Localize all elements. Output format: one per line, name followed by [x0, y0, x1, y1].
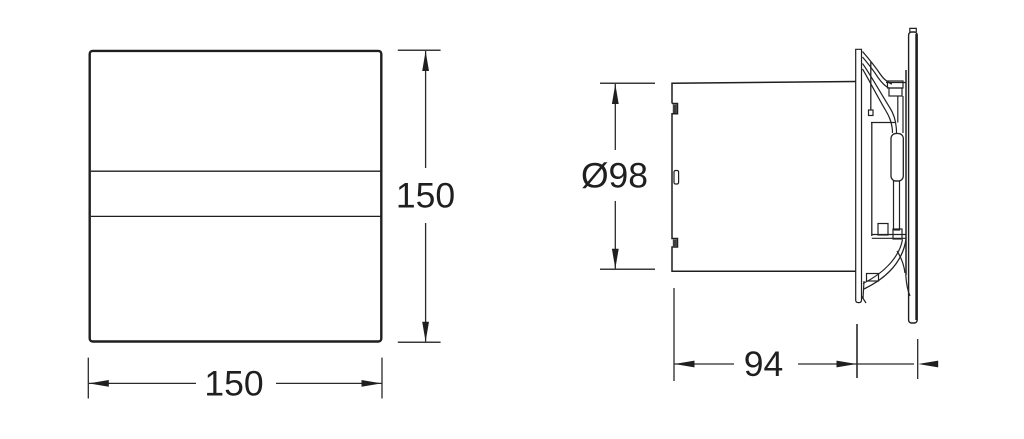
arrow up (150 height): [422, 51, 429, 71]
scroll mid horizontal: [871, 122, 896, 124]
bell to panel diagonal: [906, 275, 910, 296]
arrow down (O98): [612, 249, 619, 269]
front panel square (front view): [90, 51, 382, 342]
glass panel right edge thick: [915, 34, 917, 320]
hub shutter box lower: [889, 88, 902, 96]
motor capsule: [891, 134, 903, 182]
bell right lower curve: [897, 251, 905, 273]
extension line mid (94 dim): [856, 324, 858, 378]
extension line left (94 dim): [673, 288, 675, 381]
dim line width 150 right segment: [276, 382, 382, 384]
body clip tab top: [673, 105, 677, 114]
dim line vertical O98 upper segment: [614, 84, 616, 150]
wall mounting plate: [856, 49, 862, 302]
glass panel body: [909, 32, 918, 323]
housing back vertical line: [905, 70, 907, 275]
scroll diagonal outer: [863, 64, 897, 134]
plate bottom diagonal: [862, 296, 867, 303]
extension tick bottom (height 150 dim): [398, 341, 441, 343]
terminal box right: [893, 229, 902, 239]
bell bottom inner curve: [863, 240, 903, 284]
hub shutter box upper: [888, 81, 904, 88]
base double line lower: [872, 237, 906, 239]
panel band line upper: [91, 170, 381, 172]
dim line vertical 150 upper segment: [425, 51, 427, 168]
bell bottom outer curve: [864, 240, 906, 290]
bell mouth top outer diagonal: [863, 52, 893, 85]
dim line vertical O98 lower segment: [614, 201, 616, 269]
base double line upper: [872, 234, 906, 236]
body clip tab bottom: [673, 240, 677, 247]
body side clip middle: [674, 171, 679, 185]
panel band line lower: [91, 215, 381, 217]
extension line bottom-left (width 150 dim): [87, 358, 89, 399]
svg-text:94: 94: [744, 344, 784, 384]
extension tick top (height 150 dim): [398, 49, 441, 51]
dim line width 150 left segment: [89, 382, 196, 384]
arrow outside left-pointing (panel dim): [918, 361, 938, 368]
svg-text:150: 150: [396, 176, 455, 216]
arrow up (O98): [612, 84, 619, 104]
hub stem vertical a: [897, 96, 899, 123]
terminal box left: [878, 224, 888, 236]
bell mouth top outer diagonal pair: [863, 57, 890, 89]
extension line bottom-right (width 150 dim): [381, 358, 383, 399]
scroll front wall lower vertical: [871, 123, 873, 237]
fan housing top horizontal: [886, 82, 906, 84]
scroll front wall upper vertical: [870, 62, 872, 110]
hub stem vertical b: [902, 96, 904, 133]
svg-text:Ø98: Ø98: [581, 156, 648, 196]
arrow down (150 height): [422, 322, 429, 342]
dim line 94 left segment: [675, 363, 735, 365]
svg-text:150: 150: [204, 363, 263, 403]
scroll wall clip box: [869, 110, 874, 116]
extension tick top (diameter 98 dim): [600, 82, 655, 84]
bell edge along plate: [863, 281, 864, 299]
dim line panel segment: [857, 363, 914, 365]
scroll diagonal inner: [863, 69, 893, 133]
arrow right (150 width): [362, 380, 382, 387]
dim line 94 right segment: [798, 363, 857, 365]
arrow left (150 width): [89, 380, 109, 387]
glass front panel (side): [910, 28, 917, 32]
fan body outline (side view): [672, 82, 856, 272]
motor stem: [894, 181, 900, 230]
dim line vertical 150 lower segment: [425, 223, 427, 342]
arrow right (94): [837, 361, 857, 368]
extension tick bottom (diameter 98 dim): [600, 268, 655, 270]
arrow left (94): [675, 361, 695, 368]
extension line right (panel dim): [917, 339, 919, 379]
bell bottom foot: [867, 274, 879, 282]
